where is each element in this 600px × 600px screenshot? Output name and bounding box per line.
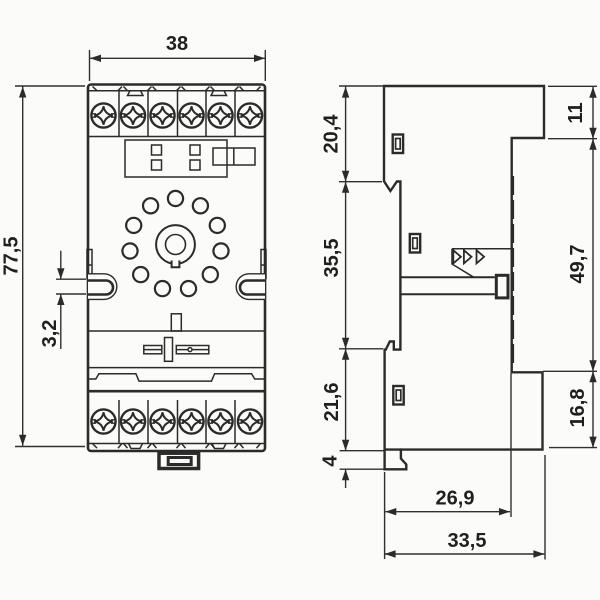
svg-text:4: 4 [320,455,342,467]
svg-text:26,9: 26,9 [436,487,475,509]
svg-text:16,8: 16,8 [567,389,589,428]
svg-text:38: 38 [166,33,188,55]
svg-text:77,5: 77,5 [1,237,23,276]
svg-text:3,2: 3,2 [39,320,61,348]
svg-text:49,7: 49,7 [567,245,589,284]
svg-text:21,6: 21,6 [321,383,343,422]
svg-text:11: 11 [565,102,587,123]
svg-text:20,4: 20,4 [321,114,343,154]
svg-text:33,5: 33,5 [448,530,487,552]
svg-text:35,5: 35,5 [321,239,343,278]
